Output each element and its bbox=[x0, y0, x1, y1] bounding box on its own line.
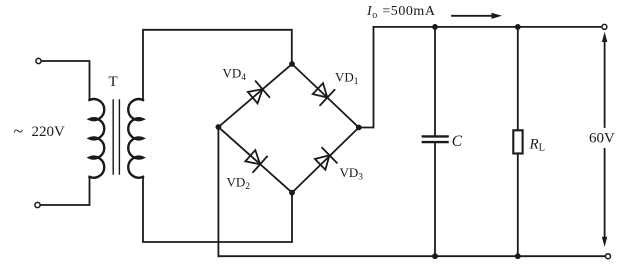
svg-text:T: T bbox=[109, 74, 118, 90]
wire bridge edge bottom-left bbox=[218, 127, 292, 193]
svg-text:C: C bbox=[452, 133, 463, 150]
arrow Io current direction bbox=[452, 13, 502, 19]
wire capacitor lower bbox=[434, 142, 436, 256]
wire bridge left node to bottom rail bbox=[217, 127, 219, 256]
node bridge left bbox=[216, 124, 222, 130]
capacitor C bbox=[423, 136, 448, 142]
diode VD3 bbox=[313, 148, 337, 172]
svg-text:60V: 60V bbox=[589, 131, 615, 147]
node capacitor top bbox=[432, 24, 438, 30]
svg-text:~ 220V: ~ 220V bbox=[14, 121, 66, 141]
wire secondary top to bridge top bbox=[143, 30, 292, 100]
wire resistor lower bbox=[517, 153, 519, 256]
node capacitor bottom bbox=[432, 253, 438, 259]
wire bridge edge bottom-right bbox=[292, 128, 359, 193]
wire secondary bottom bbox=[143, 177, 292, 242]
wire capacitor upper bbox=[434, 27, 436, 136]
wire resistor upper bbox=[517, 27, 519, 131]
node resistor top bbox=[515, 24, 521, 30]
terminal output bottom bbox=[606, 254, 611, 259]
transformer T primary winding bbox=[90, 99, 105, 178]
wire input top bbox=[41, 61, 89, 100]
wire bridge right node to top rail bbox=[359, 27, 374, 128]
terminal output top bbox=[602, 24, 607, 29]
arrow 60V measurement bbox=[602, 32, 607, 247]
node bridge top bbox=[289, 61, 295, 67]
diode VD1 bbox=[311, 81, 335, 105]
node bridge right bbox=[356, 125, 362, 131]
wire top rail bbox=[374, 26, 602, 28]
wire bridge edge top-right bbox=[292, 64, 359, 128]
wire input bottom bbox=[40, 177, 89, 205]
diode VD4 bbox=[246, 81, 270, 105]
terminal input top bbox=[36, 58, 41, 63]
node resistor bottom bbox=[515, 253, 521, 259]
node bridge bottom bbox=[289, 190, 295, 196]
terminal input bottom bbox=[35, 202, 40, 207]
wire bridge edge top-left bbox=[218, 64, 292, 127]
wire bottom rail bbox=[218, 255, 605, 257]
resistor RL bbox=[513, 130, 522, 153]
diode VD2 bbox=[243, 148, 267, 172]
transformer T secondary winding bbox=[128, 99, 143, 178]
transformer core bbox=[113, 100, 119, 174]
